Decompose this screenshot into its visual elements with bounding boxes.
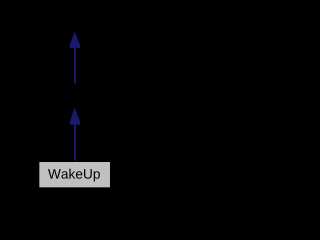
inheritance arrowhead: WakeUp to middle node <box>70 107 80 125</box>
node WakeUp: border <box>39 162 111 188</box>
node WakeUp: grey fill <box>39 162 110 187</box>
wire: upper arrow shaft <box>74 48 76 84</box>
node: middle class (invisible black box) <box>39 84 110 109</box>
wire: lower arrow shaft <box>74 124 76 160</box>
node: top base class (invisible black box) <box>39 6 110 31</box>
inheritance arrowhead: middle node to top node <box>70 32 80 48</box>
label: WakeUp <box>48 169 100 182</box>
